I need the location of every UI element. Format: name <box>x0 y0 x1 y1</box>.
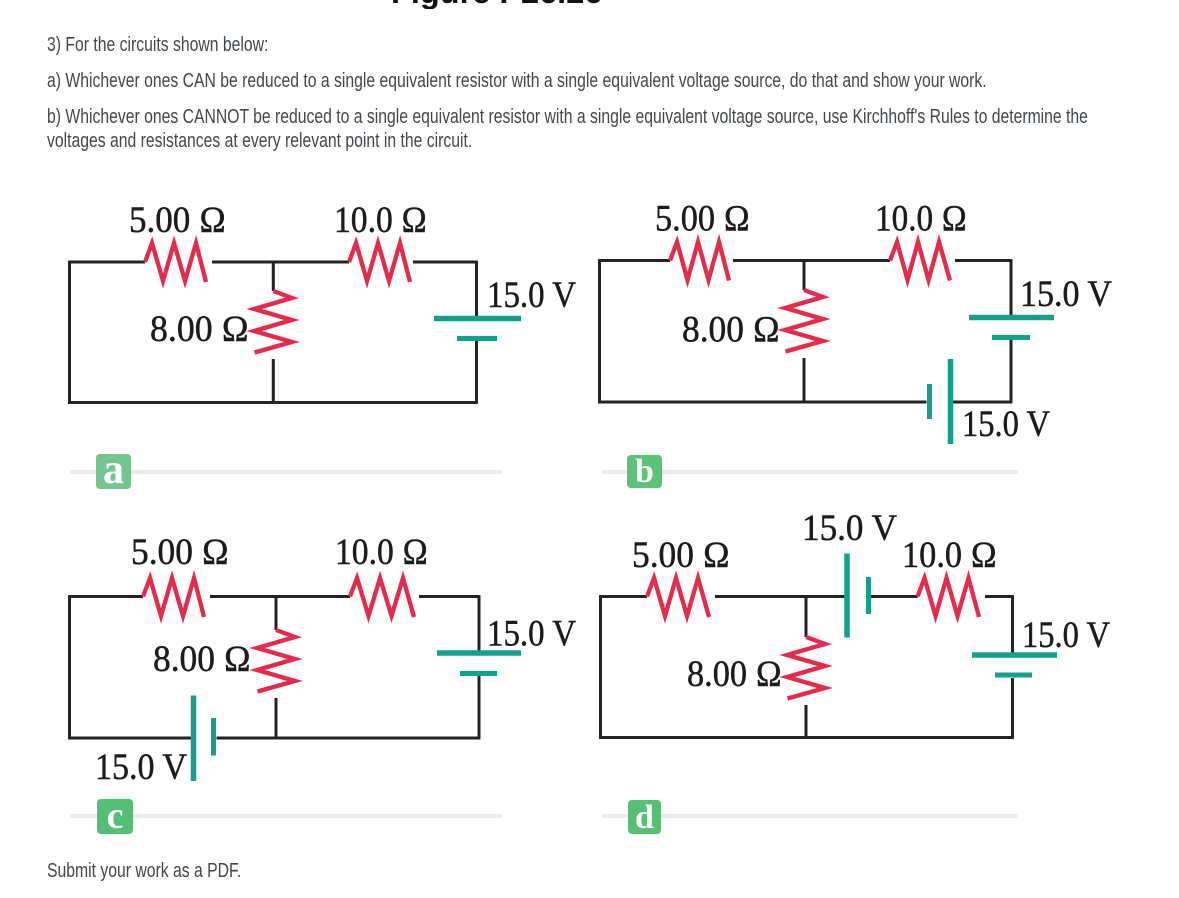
svg-text:10.0 Ω: 10.0 Ω <box>334 200 427 241</box>
svg-text:8.00 Ω: 8.00 Ω <box>682 310 780 351</box>
svg-text:5.00 Ω: 5.00 Ω <box>632 535 730 576</box>
svg-text:15.0 V: 15.0 V <box>95 747 187 788</box>
svg-text:5.00 Ω: 5.00 Ω <box>655 199 750 240</box>
svg-text:15.0 V: 15.0 V <box>962 404 1050 445</box>
svg-text:8.00 Ω: 8.00 Ω <box>150 309 249 350</box>
svg-text:10.0 Ω: 10.0 Ω <box>875 199 967 240</box>
svg-text:15.0 V: 15.0 V <box>487 275 576 316</box>
svg-text:5.00 Ω: 5.00 Ω <box>129 200 226 241</box>
svg-text:8.00 Ω: 8.00 Ω <box>687 654 782 695</box>
svg-text:8.00 Ω: 8.00 Ω <box>153 639 251 680</box>
svg-text:10.0 Ω: 10.0 Ω <box>335 532 428 573</box>
svg-text:15.0 V: 15.0 V <box>802 508 897 549</box>
svg-text:10.0 Ω: 10.0 Ω <box>902 535 997 576</box>
svg-text:15.0 V: 15.0 V <box>1020 274 1112 315</box>
svg-text:15.0 V: 15.0 V <box>1022 615 1110 656</box>
svg-text:15.0 V: 15.0 V <box>487 614 576 655</box>
svg-text:5.00 Ω: 5.00 Ω <box>131 532 229 573</box>
